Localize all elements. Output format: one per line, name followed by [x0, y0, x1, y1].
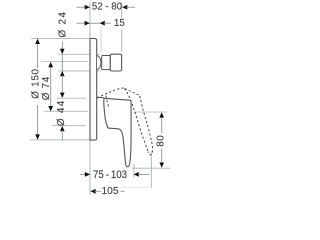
escutcheon plate side view: [90, 39, 97, 141]
svg-text:Ø 74: Ø 74: [41, 76, 52, 100]
wire extension line y168.2 right: [132, 167, 170, 169]
dimension 52-80 right arrow: [122, 5, 127, 10]
dashed lever raised top edge: [125, 89, 140, 96]
wire extension vertical x121.7 upper: [121, 3, 123, 19]
dashed lever raised outline right: [140, 96, 153, 155]
dimension 75-103 left tail: [80, 173, 86, 175]
dimension D74 arrow top: [48, 62, 53, 67]
wire extension vertical x151.3: [150, 151, 152, 188]
wire extension line plate-bottom y139.8: [30, 139, 90, 141]
dimension 15 left tail: [77, 22, 86, 24]
dimension 80 line upper: [161, 115, 163, 134]
svg-text:Ø 44: Ø 44: [56, 99, 67, 126]
svg-text:Ø 24: Ø 24: [58, 11, 69, 38]
svg-text:15: 15: [114, 18, 125, 29]
svg-text:52 - 80: 52 - 80: [92, 1, 123, 12]
dimension 75-103 right arrow: [134, 172, 139, 177]
dimension 80 arrow bottom: [159, 163, 164, 168]
dimension 15 right tail: [104, 22, 111, 24]
dimension 105 left tail: [95, 190, 101, 192]
dimension D44 arrow top: [60, 93, 65, 98]
dashed lever small dashes near plate: [106, 96, 109, 107]
svg-text:75 - 103: 75 - 103: [93, 170, 127, 181]
dimension 52-80 left arrow: [85, 5, 90, 10]
wire extension vertical x101: [100, 27, 102, 53]
wire extension vertical x121.7 lower: [121, 30, 123, 52]
dimension 52-80 right tail: [126, 6, 135, 8]
wire extension vertical x134: [133, 164, 135, 178]
collar cylinder: [102, 56, 111, 70]
svg-text:105: 105: [102, 186, 119, 197]
wire faint line y187.3: [118, 186, 149, 188]
dimension 15 right arrow: [100, 21, 105, 26]
svg-text:Ø 150: Ø 150: [30, 68, 41, 98]
wire extension line y98.2: [57, 97, 86, 99]
wire extension line collar-bottom y70.9: [58, 70, 100, 72]
dimension 80 line lower: [161, 149, 163, 166]
dimension 52-80 left tail: [77, 6, 86, 8]
wire extension line plate-top y38.4: [31, 37, 90, 39]
dimension D150 line: [37, 42, 39, 137]
dashed lever raised outline top arc: [97, 88, 124, 98]
handle hub cylinder: [110, 54, 121, 71]
dimension D150 arrow top: [35, 39, 40, 44]
dimension D44 arrow bottom: [60, 126, 65, 131]
dimension 105 arrow: [90, 189, 95, 194]
dimension 80 arrow top: [159, 112, 164, 117]
dimension D24 through line: [61, 54, 63, 70]
dimension D24 arrow bottom: [60, 71, 65, 76]
wire extension line y112 right: [134, 111, 167, 113]
wire wall extension vertical x90 above plate: [89, 3, 91, 39]
dimension 105 right stub: [121, 190, 125, 192]
dimension 15 left arrow: [85, 21, 90, 26]
dimension D74 line: [50, 65, 52, 110]
dashed lever raised outline left: [124, 89, 147, 151]
wire extension line y125.7: [52, 125, 86, 127]
cartridge dome: [97, 56, 101, 70]
dimension D74 arrow bottom: [48, 106, 53, 111]
svg-text:80: 80: [155, 135, 166, 147]
wire extension line y61.5: [41, 61, 88, 63]
dimension D150 arrow bottom: [35, 134, 40, 139]
dimension D24-D44 connecting tail: [61, 75, 63, 94]
wire wall extension vertical x90 below plate: [89, 141, 91, 195]
dimension 15 span line: [90, 22, 100, 24]
dimension 75-103 left arrow: [85, 172, 90, 177]
handle lever body: [104, 98, 131, 167]
dimension D24 arrow top: [60, 49, 65, 54]
handle lever connect line: [97, 97, 105, 98]
dimension D44 lower tail: [61, 130, 63, 141]
dimension 75-103 right tail: [138, 173, 149, 175]
wire extension line y111.3: [45, 110, 89, 112]
wire extension line collar-top y54.3: [58, 53, 100, 55]
dimension D24 upper tail: [61, 42, 63, 51]
